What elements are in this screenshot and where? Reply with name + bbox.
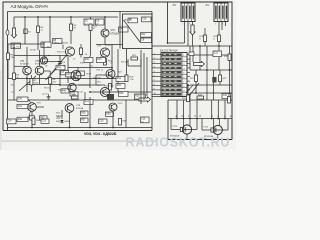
capacitor C10 label (17, 97, 28, 101)
wire X3 leads (168, 22, 193, 47)
resistor R22 (219, 75, 228, 82)
capacitor C12 label (222, 94, 231, 99)
capacitor C12b label (213, 51, 222, 57)
shield box (top-center) (123, 14, 153, 49)
misc value texts (16, 47, 123, 94)
connector arrow to output (139, 97, 151, 102)
resistor R19 (224, 54, 231, 61)
transistor VT1 (20, 60, 31, 75)
resistor R29 label (135, 94, 146, 100)
resistor R37 label (81, 118, 89, 122)
resistor R17 (213, 35, 220, 46)
wire diag right (186, 83, 199, 100)
IC designator DA1 (160, 50, 178, 53)
capacitor C15 label (99, 119, 108, 124)
capacitor C17 (dark) (107, 92, 114, 101)
scan grain overlay (0, 0, 236, 150)
capacitor C11 label (17, 104, 28, 108)
capacitor C13 label (41, 119, 49, 123)
capacitor C7 label (61, 71, 69, 75)
wire vertical feeds (top-left) (25, 17, 105, 56)
resistor R1 (24, 29, 32, 34)
resistor R33 (72, 94, 79, 99)
resistor R4 (70, 24, 78, 31)
resistor R13 label (97, 58, 106, 63)
wire bottom bus (8, 97, 153, 128)
transistor VT5 (97, 45, 112, 57)
wire module divider left (119, 12, 121, 49)
transistor VT7 (97, 85, 110, 97)
capacitor C6 (96, 19, 105, 26)
resistor R8 (44, 71, 56, 92)
caption "VD3,VD4 - КД522Б" (84, 132, 117, 136)
resistor R25 (105, 84, 112, 91)
resistor R21 (190, 75, 198, 82)
resistor R35 label (81, 111, 89, 115)
resistor R38 label (106, 112, 114, 116)
misc value texts 2 (11, 47, 129, 96)
wire power rail (168, 100, 232, 128)
wire right-section mesh (152, 2, 232, 100)
resistor R26 (125, 75, 134, 82)
transistor VT4 (55, 43, 75, 57)
diode VD3 note (56, 113, 64, 123)
connector arrow XP2 (190, 25, 195, 46)
capacitor C3 (41, 42, 51, 48)
connector X4 (206, 3, 229, 26)
resistor R18 (80, 44, 83, 58)
resistor R5 label (53, 39, 63, 45)
capacitor C8 (58, 62, 66, 65)
resistor R6 (13, 58, 20, 100)
capacitor C4 label (119, 27, 129, 32)
capacitor C9b label (77, 71, 85, 76)
transistor VT9 (28, 99, 44, 119)
resistor R20 (104, 59, 113, 66)
resistor R45 label (61, 89, 69, 93)
U1 pin stubs (152, 53, 161, 95)
connector arrow XP3 (194, 61, 205, 66)
power stage boundary (168, 100, 232, 140)
resistor R34 (32, 118, 41, 125)
feedback loop R27 (128, 55, 141, 66)
transistor VT14 (106, 70, 115, 79)
resistor R17 label (66, 72, 76, 77)
ground (47, 95, 51, 100)
resistor R23 label (84, 100, 93, 105)
resistor R44 (228, 93, 231, 103)
resistor R30 label (17, 117, 28, 121)
pin numbers group 1 (176, 116, 202, 118)
page background (0, 0, 236, 150)
transistor VT3 (35, 60, 45, 75)
transistor VT12 (109, 103, 123, 111)
watermark RADIOSKOT.RU (126, 136, 231, 150)
resistor R14 label (116, 77, 125, 82)
connector pad on frame (6, 30, 9, 35)
wire mid-left mesh (8, 42, 152, 100)
resistor R7 (30, 75, 38, 92)
resistor R2 (37, 26, 45, 33)
resistor R36 (119, 119, 128, 126)
wire X4 leads (219, 22, 226, 36)
wire IC feed columns (141, 50, 147, 104)
resistor R32 (30, 116, 48, 120)
capacitor C16 label (141, 117, 150, 123)
connector arrow X1 (11, 17, 16, 38)
wire feedback diagonal (19, 76, 36, 91)
wire VT4 emitter diagonals (46, 55, 67, 80)
diode VD2 (57, 117, 70, 124)
resistor R11 label (56, 65, 65, 70)
transistor VT10 (170, 119, 197, 140)
resistor R10 label (84, 58, 93, 63)
transistor VT13 (71, 71, 81, 81)
transistor VT2 (96, 29, 123, 45)
transistor VT4a (40, 57, 47, 64)
pin numbers group 2 (212, 116, 233, 118)
transistor VT6 (68, 80, 80, 92)
resistor R24 (89, 24, 98, 31)
misc wire segments (14, 45, 112, 101)
resistor R3 (7, 44, 15, 79)
connector X3 (173, 3, 196, 26)
resistor R43 (197, 94, 204, 99)
title "А3 Модуль УНЧ" (11, 4, 48, 9)
capacitor C18 (dark) (212, 77, 223, 83)
capacitor C1 (11, 43, 21, 49)
transistor VT8 (65, 104, 84, 113)
resistor R31 (182, 95, 190, 102)
capacitor C5 (84, 19, 94, 26)
wire top supply bus (14, 16, 118, 18)
capacitor C19 label (70, 92, 78, 96)
resistor R28 label (119, 92, 129, 97)
capacitor C14 label (7, 119, 17, 124)
transistor VT11 (202, 119, 228, 140)
module A3 boundary (3, 2, 232, 140)
op-amp U1 (DA1 IC block) (161, 53, 190, 97)
resistor R16 (199, 28, 206, 46)
resistor R41 (189, 52, 194, 56)
resistor R15 label (116, 84, 125, 89)
resistor R9 label (128, 18, 138, 23)
wire IC bottom bus (152, 96, 187, 98)
